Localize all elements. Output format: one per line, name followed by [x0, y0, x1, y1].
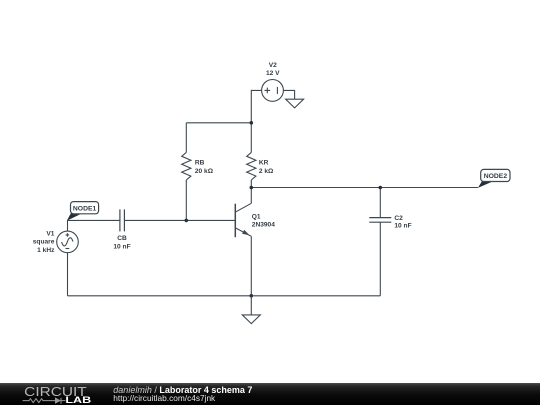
wire base rail left segment (NODE1 to CB): [68, 219, 120, 221]
wire V2 right lead to ground: [283, 90, 294, 99]
wire KR bottom lead to collector node: [250, 180, 252, 188]
wire base rail right segment (CB to Q1 base): [124, 219, 235, 221]
svg-text:Q1: Q1: [252, 213, 261, 220]
wire V1 top lead: [67, 220, 69, 231]
svg-text:NODE1: NODE1: [73, 205, 97, 212]
junction at emitter / bottom rail: [250, 294, 254, 298]
wire collector row to NODE2: [251, 187, 478, 189]
svg-text:square: square: [33, 239, 55, 246]
svg-text:RB: RB: [195, 160, 205, 167]
label C2 value: [394, 215, 411, 229]
wire V1 bottom lead down to bottom rail: [67, 253, 69, 296]
junction at top rail / KR column: [250, 121, 254, 125]
junction at collector node: [250, 186, 254, 190]
wire C2 top lead: [379, 188, 381, 218]
label CB value: [113, 235, 130, 250]
label Q1 value: [252, 213, 275, 228]
wire C2 bottom lead: [379, 222, 381, 296]
svg-text:20 kΩ: 20 kΩ: [195, 168, 214, 175]
voltage source V2: [262, 80, 284, 102]
label KR value: [259, 160, 274, 175]
wire bottom rail: [68, 295, 381, 297]
svg-text:LAB: LAB: [65, 395, 91, 405]
svg-text:2 kΩ: 2 kΩ: [259, 168, 274, 175]
svg-text:12 V: 12 V: [266, 70, 280, 77]
footer logo CIRCUIT: [0, 383, 540, 405]
svg-text:NODE2: NODE2: [484, 173, 508, 180]
capacitor C2: [369, 218, 391, 223]
footer logo squiggle: [23, 397, 66, 403]
svg-text:http://circuitlab.com/c4s7jnk: http://circuitlab.com/c4s7jnk: [113, 392, 216, 402]
label V2 value: [266, 62, 280, 77]
ground at V2: [286, 99, 304, 108]
node NODE2 flag: [478, 169, 510, 188]
svg-text:1 kHz: 1 kHz: [37, 247, 55, 254]
svg-text:CB: CB: [117, 235, 127, 242]
svg-text:10 nF: 10 nF: [394, 223, 411, 230]
junction at C2 tap: [379, 186, 383, 190]
label V1 value: [33, 231, 55, 254]
voltage source V1: [57, 231, 79, 253]
svg-text:C2: C2: [394, 215, 403, 222]
svg-text:10 nF: 10 nF: [113, 243, 130, 250]
wire emitter lead down to bottom rail: [250, 236, 252, 295]
svg-text:V1: V1: [46, 231, 54, 238]
svg-text:KR: KR: [259, 160, 269, 167]
resistor RB: [182, 152, 191, 180]
node NODE1 flag: [67, 202, 99, 221]
capacitor CB: [120, 209, 125, 231]
label RB value: [195, 160, 214, 175]
svg-text:2N3904: 2N3904: [252, 222, 275, 229]
wire KR top lead: [250, 123, 252, 153]
resistor KR: [247, 152, 256, 180]
ground at bottom rail: [242, 296, 260, 324]
wire collector lead into Q1: [250, 188, 252, 204]
junction at RB / base rail: [185, 219, 189, 223]
wire RB bottom lead to base rail: [185, 180, 187, 220]
transistor Q1: [235, 203, 251, 237]
wire top rail from RB top to KR top: [186, 122, 251, 124]
footer bar: [0, 383, 540, 405]
svg-text:V2: V2: [269, 62, 277, 69]
wire KR column from top rail up to V2: [251, 90, 261, 122]
wire RB top lead: [185, 123, 187, 153]
